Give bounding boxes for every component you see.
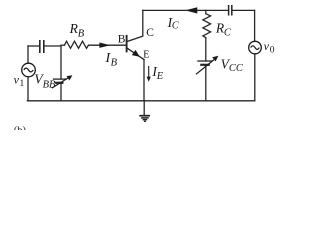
svg-text:E: E [143, 50, 149, 61]
ground stem [143, 101, 145, 115]
wire: emitter down to bottom rail [143, 60, 145, 101]
wire: capacitor to VBB junction [45, 45, 62, 47]
battery VCC short plate [201, 64, 208, 66]
svg-text:BB: BB [43, 79, 56, 90]
svg-text:C: C [146, 27, 154, 39]
wire: bottom rail [27, 100, 254, 102]
capacitor C1 input coupling plates [40, 41, 44, 52]
transistor Q1 emitter arrowhead [132, 50, 140, 57]
battery VBB long plate [54, 78, 67, 80]
svg-text:1: 1 [20, 79, 25, 89]
wire: left rail bottom (v1 to bottom rail) [27, 77, 29, 101]
svg-text:B: B [111, 58, 118, 69]
resistor RC zigzag [203, 14, 211, 38]
ac source v0 circle [249, 41, 262, 54]
svg-text:v: v [264, 39, 270, 53]
svg-text:(b): (b) [14, 125, 27, 130]
arrow VCC adjustable [196, 56, 218, 75]
capacitor C2 output coupling plates [229, 6, 232, 15]
resistor RB zigzag [65, 41, 89, 48]
wire: top rail after capacitor [232, 9, 254, 11]
wire: top-left horizontal to capacitor [28, 45, 39, 47]
svg-text:C: C [172, 21, 179, 32]
wire: RB to base with IB direction [89, 44, 127, 46]
battery VBB short plate [56, 82, 62, 84]
label IC [167, 15, 179, 32]
label v0 [264, 39, 275, 56]
ac source v1 circle [22, 63, 36, 77]
arrow IB on base wire [99, 43, 110, 48]
battery VCC long plate [198, 60, 212, 62]
wire: RC to VCC battery [205, 38, 207, 61]
svg-text:E: E [156, 71, 164, 82]
wire: right rail upper (to v0) [254, 10, 256, 41]
label RB [69, 21, 85, 39]
arrow IE annotation [147, 66, 151, 82]
label RC [215, 20, 232, 38]
arrow IC on top rail [185, 7, 197, 13]
arrow VBB adjustable [52, 75, 73, 88]
label VCC [221, 56, 244, 74]
wire: top rail (collector to right) [143, 9, 228, 11]
transistor Q1 collector lead [127, 10, 142, 41]
svg-text:0: 0 [270, 45, 275, 55]
svg-text:B: B [118, 34, 126, 46]
wire: right rail lower (v0 to bottom) [254, 54, 256, 101]
wire: VBB branch lower [60, 83, 62, 101]
svg-text:C: C [224, 27, 232, 38]
label VBB [34, 72, 56, 91]
svg-text:B: B [78, 28, 85, 39]
ground symbol bars [139, 116, 150, 122]
label IE [151, 64, 163, 82]
wire: VBB junction to resistor RB [61, 44, 65, 46]
wire: RC branch top stub [205, 10, 207, 13]
transistor Q1 base bar [126, 36, 128, 52]
transistor Q1 emitter lead [127, 48, 144, 59]
wire: VBB branch upper [60, 46, 62, 79]
wire: VCC branch lower [205, 65, 207, 101]
wire: left rail top (v1 to top-left wire) [27, 46, 29, 63]
label IB [105, 51, 118, 69]
svg-text:CC: CC [229, 63, 244, 74]
label v1 [14, 72, 25, 89]
